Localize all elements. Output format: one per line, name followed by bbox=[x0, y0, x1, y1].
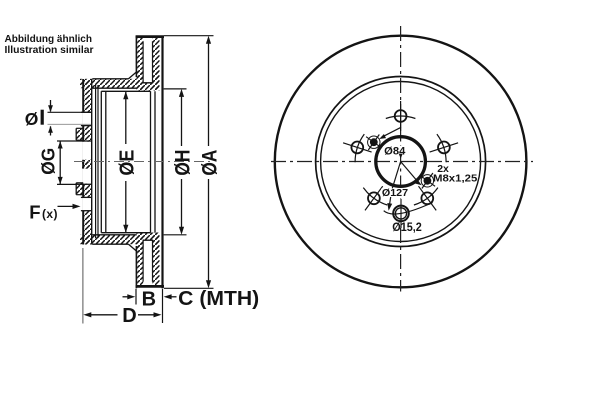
vertical centerline bbox=[400, 26, 402, 292]
extension lines ØG bbox=[57, 141, 77, 184]
svg-text:C (MTH): C (MTH) bbox=[178, 288, 259, 310]
pot interior step lines bbox=[101, 91, 106, 232]
svg-text:Ø15,2: Ø15,2 bbox=[392, 222, 422, 234]
svg-text:(x): (x) bbox=[42, 207, 58, 221]
hat bottom flange (hatched) bbox=[80, 235, 137, 252]
svg-text:ØE: ØE bbox=[115, 150, 138, 176]
dimension arrows B bbox=[123, 294, 177, 299]
friction face plane line bbox=[161, 36, 163, 289]
svg-text:ØG: ØG bbox=[38, 148, 59, 175]
extension line D bbox=[82, 248, 84, 324]
svg-text:ØA: ØA bbox=[197, 150, 221, 176]
threaded hole 2x M8 (filled) at 144.3 deg bbox=[366, 135, 381, 151]
leader line Ø127 bbox=[387, 162, 400, 211]
dimension line ØI with arrows bbox=[48, 100, 53, 136]
wheel stud boss lower bbox=[76, 183, 83, 195]
wheel stud hole at 234 deg with centre marks bbox=[363, 186, 387, 210]
label F(x) bbox=[29, 202, 58, 223]
leader line to M8 hole upper-left bbox=[379, 127, 401, 139]
hub drum inner lines bbox=[96, 85, 98, 238]
center bore circle Ø84 bbox=[376, 137, 426, 187]
pot inner bottom edge bbox=[101, 232, 150, 234]
label Ø127 bbox=[381, 187, 409, 199]
dimension line ØH with arrows bbox=[179, 89, 184, 235]
svg-text:Ø: Ø bbox=[25, 109, 39, 129]
pitch arc through Ø15,2 hole bbox=[384, 203, 433, 215]
dimension line ØG with arrows bbox=[58, 141, 63, 184]
svg-text:M8x1,25: M8x1,25 bbox=[433, 173, 477, 185]
pot inner top edge bbox=[101, 90, 150, 92]
wheel stud boss upper bbox=[76, 128, 83, 140]
leader line to M8 hole lower-right bbox=[401, 162, 422, 186]
wheel stud hole at 90 deg with centre marks bbox=[386, 101, 416, 131]
label Ø84 with leader arrow bbox=[383, 145, 406, 158]
wheel stud hole at 306 deg with centre marks bbox=[414, 186, 438, 210]
svg-text:D: D bbox=[122, 305, 136, 327]
extension lines ØI bbox=[48, 112, 92, 124]
friction band outer edge circle bbox=[316, 77, 486, 247]
dimension line ØE with arrows bbox=[123, 91, 128, 232]
dimension label ØI bbox=[25, 109, 44, 129]
extension lines ØA bbox=[164, 36, 214, 289]
extension lines B bbox=[136, 289, 163, 323]
extension lines ØH bbox=[164, 89, 187, 235]
pot opening lines bbox=[151, 91, 156, 232]
svg-text:ØH: ØH bbox=[170, 150, 194, 176]
disc outer circle bbox=[275, 36, 527, 288]
stud hole detail Ø15,2 (double circle) bbox=[393, 206, 409, 222]
wheel stud hole at 162 deg with centre marks bbox=[343, 134, 372, 162]
svg-text:Illustration similar: Illustration similar bbox=[5, 45, 94, 56]
friction band inner edge circle bbox=[321, 82, 481, 242]
threaded hole 2x M8 (filled) at 324.3 deg bbox=[420, 173, 435, 189]
dimension line ØA with arrows bbox=[206, 36, 211, 289]
horizontal centerline bbox=[271, 161, 533, 163]
hat top flange (hatched) bbox=[80, 72, 137, 89]
friction ring top section (vented plates) bbox=[136, 36, 164, 91]
svg-text:Ø127: Ø127 bbox=[382, 187, 408, 199]
svg-text:Ø84: Ø84 bbox=[384, 145, 406, 157]
svg-text:Abbildung ähnlich: Abbildung ähnlich bbox=[5, 34, 93, 45]
svg-text:F: F bbox=[29, 202, 40, 223]
friction ring bottom section (vented plates) bbox=[136, 233, 164, 289]
dimension line D with arrows bbox=[83, 312, 161, 317]
wheel stud hole at 18 deg with centre marks bbox=[430, 134, 459, 162]
svg-text:B: B bbox=[142, 288, 156, 310]
hat wall section (stud holes and pilot bore) bbox=[77, 79, 92, 245]
leader line F(x) bbox=[58, 204, 81, 209]
left view horizontal centerline bbox=[74, 161, 214, 163]
